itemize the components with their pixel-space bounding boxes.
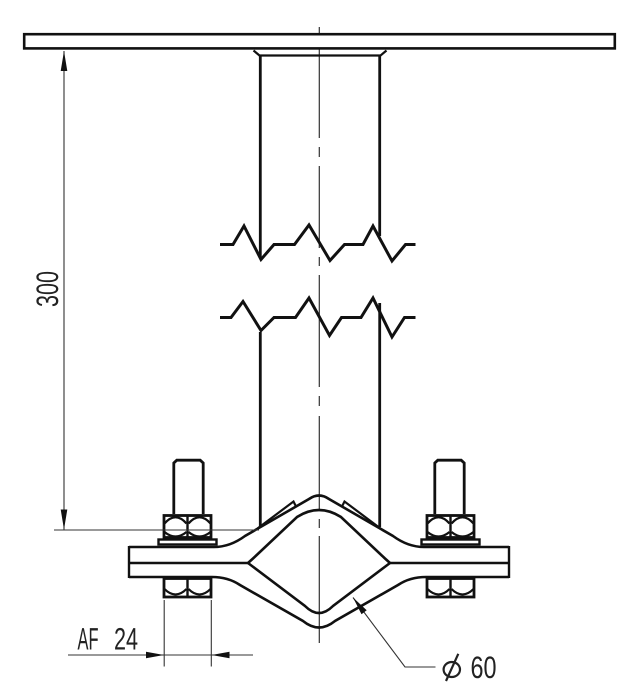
bolt shank	[174, 460, 203, 514]
svg-text:300: 300	[30, 271, 65, 307]
dimension 300 line	[63, 51, 65, 530]
diameter symbol	[444, 654, 460, 681]
clamp right end cap	[508, 546, 510, 578]
break line lower	[220, 298, 416, 337]
leader arrow	[353, 598, 367, 615]
clamp opening lower inner	[248, 563, 390, 613]
clamp opening upper inner	[248, 510, 390, 563]
AF24 arrow left	[146, 652, 164, 659]
weld sliver left	[258, 502, 297, 529]
washer	[159, 540, 217, 545]
extension line at tube end (300 dim)	[54, 529, 259, 531]
hex nut lower	[164, 579, 211, 598]
clamp mid line left	[129, 562, 248, 565]
centerline	[318, 27, 320, 643]
weld collar	[254, 51, 387, 56]
tube wall right upper	[378, 56, 381, 236]
svg-text:24: 24	[114, 622, 138, 657]
AF 24 extension lines	[68, 600, 253, 667]
clamp mid line right	[390, 562, 509, 565]
clamp lower strap outer	[129, 577, 509, 628]
arrow up (300 top)	[61, 51, 68, 71]
tube wall right lower	[378, 303, 381, 527]
clamp upper strap outer	[129, 496, 509, 548]
tube wall left lower	[259, 332, 262, 527]
top plate	[24, 34, 615, 48]
arrow down (300 bottom)	[61, 510, 68, 530]
break line upper	[220, 225, 416, 261]
left bolt	[159, 460, 217, 597]
svg-text:AF: AF	[78, 622, 99, 657]
AF24 arrow right	[212, 652, 230, 659]
weld sliver right	[342, 502, 381, 529]
hex nut upper	[164, 516, 211, 538]
clamp left end cap	[128, 546, 130, 578]
right bolt	[422, 460, 480, 597]
leader line dia60	[353, 598, 436, 668]
tube wall left upper	[259, 56, 262, 257]
svg-text:60: 60	[471, 650, 497, 685]
